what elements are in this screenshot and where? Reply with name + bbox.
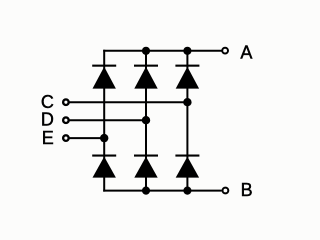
svg-text:D: D <box>41 109 54 129</box>
svg-text:B: B <box>241 180 253 200</box>
svg-text:A: A <box>240 42 252 62</box>
svg-text:E: E <box>42 128 54 148</box>
